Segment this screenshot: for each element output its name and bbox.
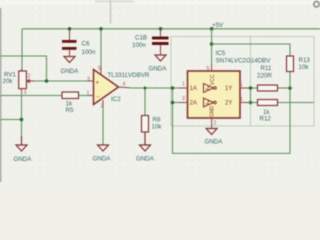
svg-text:3: 3 [24, 90, 27, 96]
node junction op-amp V+ [99, 27, 103, 31]
svg-text:220R: 220R [257, 73, 272, 80]
svg-text:2: 2 [28, 74, 31, 80]
resistor R5 [62, 92, 79, 114]
svg-text:GNDA: GNDA [136, 156, 155, 163]
resistor R13 [287, 56, 311, 72]
svg-text:+: + [96, 81, 100, 87]
svg-text:3: 3 [182, 96, 185, 102]
gate 1 [204, 84, 214, 93]
wire R13 bottom [289, 72, 291, 89]
wire R8 branch [144, 88, 146, 116]
wire branch from RV1 bottom to left edge [0, 119, 22, 121]
svg-text:R8: R8 [153, 117, 161, 124]
wire C1B stub [160, 29, 162, 37]
wire output tie vertical [250, 88, 252, 103]
svg-text:4: 4 [240, 97, 243, 103]
capacitor C6 [62, 40, 96, 57]
wire op-amp output to IC5 input 1A [130, 87, 179, 89]
wire R5 to op-amp inverting input [79, 95, 89, 97]
node junction RV1 wiper [45, 79, 49, 83]
svg-text:1: 1 [87, 91, 90, 97]
resistor R8 [142, 116, 163, 133]
svg-text:10k: 10k [299, 64, 310, 71]
svg-text:R12: R12 [260, 116, 272, 123]
wire left drop to RV1 [21, 29, 23, 71]
svg-text:GNDA: GNDA [205, 139, 224, 146]
wire R12 right loop [278, 102, 314, 104]
node junction 1Y [249, 86, 253, 90]
op-amp IC2 [87, 66, 150, 110]
svg-text:6: 6 [240, 83, 243, 89]
wire IC5 output 1Y to R11 [249, 87, 258, 89]
svg-text:−: − [96, 95, 100, 101]
svg-text:R13: R13 [299, 57, 311, 64]
svg-text:4: 4 [123, 82, 126, 88]
svg-text:10k: 10k [152, 124, 163, 131]
svg-text:GNDA: GNDA [93, 156, 112, 163]
ground GNDA under IC5 [205, 129, 224, 146]
wire left stub y56 [0, 56, 47, 81]
node junction 2Y [249, 101, 253, 105]
svg-text:GNDA: GNDA [14, 156, 33, 163]
wire R11 right to node [278, 87, 291, 89]
svg-text:IC5: IC5 [216, 50, 226, 57]
svg-text:100n: 100n [132, 42, 146, 49]
gate 2 [204, 98, 214, 107]
node junction 1A [171, 86, 175, 90]
svg-text:SN74LVC2G14DBV: SN74LVC2G14DBV [216, 58, 272, 65]
svg-text:100n: 100n [82, 49, 96, 56]
wire RV1 wiper to op-amp [31, 80, 89, 82]
wire op-amp V+ supply [100, 29, 102, 70]
ground GNDA under C6 [61, 57, 80, 76]
node junction C6 [68, 27, 72, 31]
wire IC5 VCC drop [211, 29, 213, 65]
svg-text:1A: 1A [190, 86, 197, 92]
svg-text:2: 2 [214, 121, 217, 127]
svg-text:GND: GND [209, 106, 215, 118]
resistor R11 [257, 65, 278, 91]
node junction R13 bottom [288, 86, 292, 90]
gray icon top right [314, 1, 319, 6]
svg-text:TL331LVDBVR: TL331LVDBVR [108, 72, 150, 79]
svg-text:20k: 20k [3, 78, 14, 85]
svg-text:C1B: C1B [135, 35, 147, 42]
svg-text:C6: C6 [82, 41, 90, 48]
wire RV1 bottom to GNDA [21, 90, 23, 136]
svg-text:5: 5 [207, 66, 210, 72]
svg-text:R11: R11 [261, 65, 272, 72]
svg-text:GNDA: GNDA [149, 66, 168, 73]
left window border [0, 8, 1, 182]
wire IC5 output 2Y to R12 [249, 102, 258, 104]
wire R5 input from left edge [0, 95, 62, 97]
wire input tie vertical [173, 88, 291, 153]
ground GNDA under RV1 [14, 136, 33, 163]
svg-text:VCC: VCC [210, 74, 216, 85]
svg-text:GNDA: GNDA [61, 68, 80, 75]
node junction +5V rail [210, 27, 214, 31]
ground GNDA under R8 [136, 132, 155, 163]
wire IC5 input 2A [173, 102, 180, 104]
wire C6 stub [69, 29, 71, 40]
node junction R8 [144, 87, 147, 90]
wire top +5V rail [22, 28, 320, 30]
capacitor C1B [132, 35, 169, 56]
svg-text:R5: R5 [66, 107, 74, 114]
svg-text:1: 1 [182, 82, 185, 88]
svg-text:3: 3 [87, 77, 90, 83]
svg-text:IC2: IC2 [111, 96, 121, 103]
svg-text:2Y: 2Y [225, 101, 232, 107]
node junction VCC branch [210, 42, 214, 46]
IC5 SN74LVC2G14 hex inverter [179, 50, 271, 129]
svg-text:2A: 2A [190, 101, 197, 107]
node junction C1B [159, 27, 163, 31]
resistor R12 [258, 100, 278, 123]
wire +5V to R13 [212, 44, 290, 56]
svg-text:+5V: +5V [212, 22, 224, 29]
svg-text:1Y: 1Y [225, 86, 232, 92]
svg-text:5: 5 [98, 66, 101, 72]
potentiometer RV1 [3, 69, 35, 96]
node junction RV1 bottom [20, 118, 24, 122]
ground GNDA under op-amp [93, 145, 112, 163]
wire op-amp V- to GNDA [102, 107, 104, 145]
gray cursor artifact top [95, 0, 134, 24]
ground GNDA under C1B [149, 55, 168, 73]
sheet pale rectangle [171, 37, 314, 127]
node junction 2A [171, 101, 175, 105]
